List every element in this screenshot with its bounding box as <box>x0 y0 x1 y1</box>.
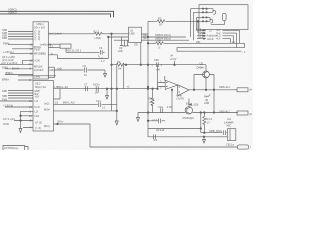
svg-text:C14: C14 <box>96 99 101 103</box>
svg-text:(m2): (m2) <box>44 101 49 105</box>
svg-text:(〉c): (〉c) <box>35 37 41 41</box>
svg-text:PV8: PV8 <box>2 97 7 101</box>
svg-text:O: O <box>30 119 32 123</box>
svg-text:LML: LML <box>118 49 124 53</box>
svg-text:1.8: 1.8 <box>55 100 59 104</box>
svg-text:MFLEX: MFLEX <box>34 64 43 68</box>
svg-text:S4B: S4B <box>2 89 7 93</box>
svg-text:U:: U: <box>158 45 161 49</box>
svg-text:D#B#+: D#B#+ <box>197 65 205 69</box>
svg-text:(B)B(L): (B)B(L) <box>5 71 13 75</box>
svg-text:N30-2L-2/3 1: N30-2L-2/3 1 <box>66 49 82 53</box>
svg-text:(m) LL#m#: (m) LL#m# <box>49 32 62 36</box>
svg-text:R#: R# <box>117 60 121 64</box>
svg-text:B2: B2 <box>186 101 190 105</box>
svg-text:A7/ 2 +(FL: A7/ 2 +(FL <box>3 117 16 121</box>
svg-text:+18: +18 <box>35 94 40 98</box>
svg-text:Q5: Q5 <box>200 62 204 66</box>
svg-text:MO#: MO# <box>44 108 50 112</box>
svg-text:R1.2: R1.2 <box>94 30 100 34</box>
svg-text:C6: C6 <box>99 46 103 50</box>
svg-text:A0.4a#: A0.4a# <box>156 128 165 132</box>
svg-text:(.#): (.#) <box>156 67 160 71</box>
svg-text:LM5: LM5 <box>130 32 136 36</box>
svg-text:J11: J11 <box>227 117 232 121</box>
svg-text:U8.2: U8.2 <box>35 81 41 85</box>
svg-text:a-L4: a-L4 <box>198 35 204 39</box>
svg-text:C5: C5 <box>83 64 87 68</box>
svg-text:(〉#): (〉#) <box>35 126 41 130</box>
svg-text:B40-L-A/2: B40-L-A/2 <box>63 100 75 104</box>
svg-text:〉: 〉 <box>250 145 253 149</box>
svg-text:CWB: CWB <box>34 75 40 79</box>
svg-text:L-2(9): L-2(9) <box>192 103 199 107</box>
svg-text:ACTON(m)+: ACTON(m)+ <box>4 146 19 150</box>
svg-text:LBL: LBL <box>196 40 201 44</box>
svg-text:MIC: MIC <box>227 123 232 127</box>
svg-text:(7L47): (7L47) <box>177 97 185 101</box>
svg-text:1.6: 1.6 <box>54 85 58 89</box>
svg-text:S5B: S5B <box>2 94 7 98</box>
svg-text:R5: R5 <box>158 39 162 43</box>
svg-text:C##: C## <box>154 58 159 62</box>
svg-text:=L4: =L4 <box>216 36 221 40</box>
svg-text:M100(9)A: M100(9)A <box>183 116 195 120</box>
svg-text:(3V)+: (3V)+ <box>57 120 64 124</box>
svg-text:1 μ: 1 μ <box>99 55 103 59</box>
svg-text:+A0/: +A0/ <box>57 66 63 70</box>
svg-text:2.1: 2.1 <box>102 105 106 109</box>
svg-text:(A#): (A#) <box>49 68 54 72</box>
svg-text:SMD/4-1N(m): SMD/4-1N(m) <box>155 33 171 37</box>
svg-text:L3/: L3/ <box>35 99 39 103</box>
svg-text:50(m) SA: 50(m) SA <box>35 85 46 89</box>
svg-text:LFFLEX: LFFLEX <box>34 68 44 72</box>
svg-text:FL#: FL# <box>35 114 40 118</box>
svg-text:2GW: 2GW <box>3 122 9 126</box>
svg-text:+(C) 2 +L3(m): +(C) 2 +L3(m) <box>1 61 17 65</box>
svg-text:SMD-4L2: SMD-4L2 <box>219 110 231 114</box>
svg-text:-1.8V: -1.8V <box>166 105 172 109</box>
svg-text:FL3/: FL3/ <box>35 105 40 109</box>
svg-text:S0#1: S0#1 <box>2 65 9 69</box>
svg-text:PWM: PWM <box>3 41 9 45</box>
svg-text:LR(2): LR(2) <box>95 36 102 40</box>
svg-text:U#: U# <box>118 67 122 71</box>
svg-text:PCM+: PCM+ <box>34 45 42 49</box>
svg-text:C2a: C2a <box>158 105 163 109</box>
svg-text:SMD-4L1: SMD-4L1 <box>219 85 231 89</box>
svg-text:S3B: S3B <box>2 36 7 40</box>
svg-text:VA-: VA- <box>143 36 147 40</box>
svg-text:+1.8V(m): +1.8V(m) <box>3 50 14 54</box>
svg-text:L#M: L#M <box>204 101 209 105</box>
svg-text:VDR(2): VDR(2) <box>8 10 17 14</box>
svg-text:BOH#: BOH# <box>12 67 20 71</box>
svg-text:+3.3V: +3.3V <box>170 57 177 61</box>
svg-text:50++ 5/G: 50++ 5/G <box>34 25 45 29</box>
svg-text:SMB_MSG: SMB_MSG <box>209 129 222 133</box>
svg-text:(2.7: (2.7 <box>153 118 158 122</box>
svg-text:VB2: VB2 <box>41 52 46 56</box>
svg-text:1F: 1F <box>84 73 87 77</box>
svg-text:A13/+: A13/+ <box>93 83 100 87</box>
svg-text:GD: GD <box>134 42 138 46</box>
svg-text:LF (3): LF (3) <box>35 120 42 124</box>
svg-text:R24+: R24+ <box>148 97 155 101</box>
svg-text:〉1: 〉1 <box>242 50 247 54</box>
svg-text:1 2: 1 2 <box>101 59 105 63</box>
svg-text:R2: R2 <box>158 17 162 21</box>
svg-text:+1.8(V)d: +1.8(V)d <box>3 103 14 107</box>
svg-text:CEL1a: CEL1a <box>226 143 234 147</box>
svg-text:BFB/+: BFB/+ <box>2 78 10 82</box>
svg-text:1PF: 1PF <box>95 91 100 95</box>
svg-text:MC)(: MC)( <box>44 124 50 128</box>
svg-text:JACK: JACK <box>207 37 214 41</box>
svg-text:B40-L-4C: B40-L-4C <box>57 85 68 89</box>
svg-text:+CW: +CW <box>34 58 40 62</box>
svg-text:M: M <box>150 100 152 104</box>
svg-text:LR: LR <box>159 22 162 26</box>
svg-text:C7: C7 <box>84 83 88 87</box>
svg-text:U8(m): U8(m) <box>37 22 44 26</box>
svg-text:L2/: L2/ <box>35 109 39 113</box>
svg-text:2.#: 2.# <box>154 138 158 142</box>
